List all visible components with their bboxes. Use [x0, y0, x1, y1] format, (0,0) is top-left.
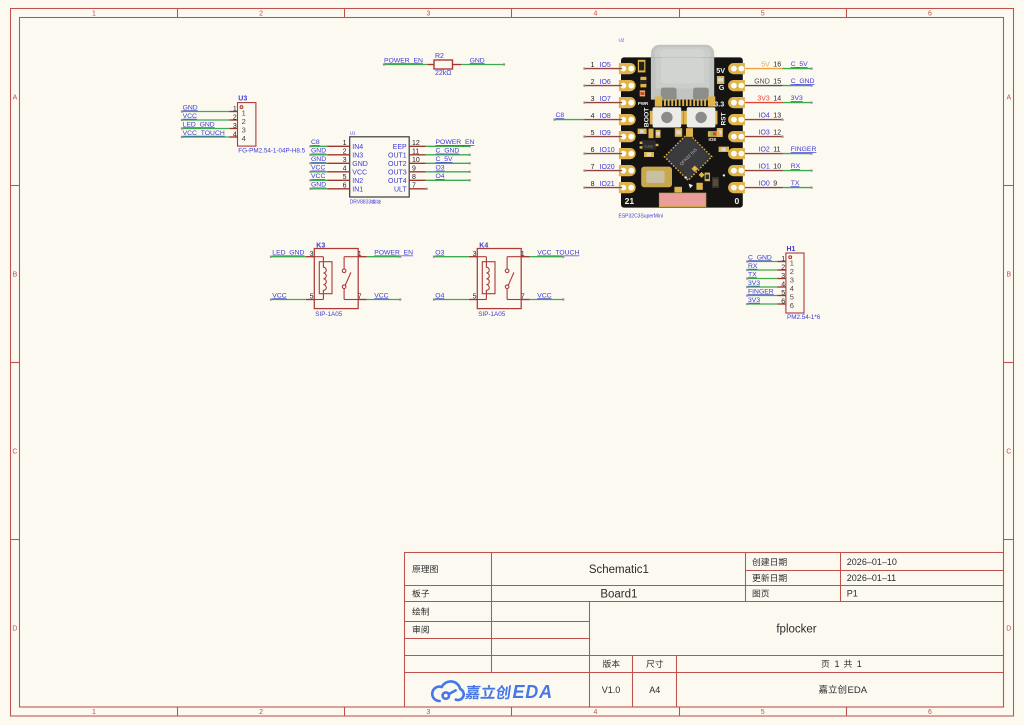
wire VCC [367, 298, 402, 300]
svg-text:OUT1: OUT1 [388, 152, 407, 159]
svg-text:C8: C8 [311, 139, 320, 146]
pin 10 of U2 (IO1) [745, 163, 783, 170]
svg-text:G: G [719, 83, 725, 92]
svg-text:RST: RST [721, 113, 728, 126]
wire RX [783, 170, 813, 172]
svg-text:FINGER: FINGER [791, 146, 817, 153]
left pads of U2 [619, 63, 636, 193]
svg-text:U1: U1 [350, 131, 356, 136]
svg-text:GND: GND [311, 148, 326, 155]
pin 4 of U1 (VCC) [328, 166, 368, 177]
wire GND [461, 63, 505, 65]
svg-text:4: 4 [242, 134, 246, 143]
wire O3 [433, 256, 469, 258]
svg-text:2026–01–10: 2026–01–10 [847, 557, 897, 567]
wire C_5V [426, 162, 471, 164]
svg-text:IO8: IO8 [600, 113, 611, 120]
pin 12 of U2 (IO3) [745, 129, 783, 136]
svg-text:PM2.54-1*6: PM2.54-1*6 [787, 314, 821, 321]
svg-text:Board1: Board1 [600, 588, 637, 600]
pin 3 of U1 (GND) [328, 157, 368, 168]
wire C_GND [783, 85, 813, 87]
wire VCC [309, 171, 327, 173]
svg-text:U2: U2 [619, 38, 625, 43]
pin 6 of U1 (IN1) [328, 183, 364, 194]
svg-text:2026–01–11: 2026–01–11 [847, 573, 896, 583]
svg-text:1: 1 [521, 251, 525, 258]
pin 2 of U1 (IN3) [328, 149, 364, 160]
pin 6 of H1 [777, 299, 794, 310]
svg-text:IO4: IO4 [759, 112, 770, 119]
svg-text:12: 12 [412, 140, 420, 147]
wire VCC [270, 298, 306, 300]
svg-text:2: 2 [259, 709, 263, 716]
svg-text:K3: K3 [316, 242, 325, 249]
wire GND [309, 162, 327, 164]
svg-text:K4: K4 [479, 242, 488, 249]
svg-text:10: 10 [773, 163, 781, 170]
pin 3 of K3 [306, 251, 315, 258]
pin 5 of K4 [469, 294, 478, 301]
wire TX [746, 277, 777, 279]
pin 4 of U2 (IO8) [585, 113, 623, 120]
svg-text:1: 1 [591, 62, 595, 69]
svg-text:IO20: IO20 [600, 164, 615, 171]
svg-text:0: 0 [735, 196, 740, 206]
svg-text:IO21: IO21 [600, 181, 615, 188]
wire TX [783, 187, 813, 189]
pin 7 of K3 [358, 294, 367, 301]
pin 16 of U2 (5V) [745, 61, 783, 68]
svg-text:VCC_TOUCH: VCC_TOUCH [537, 250, 579, 257]
pin 1 of H1 [777, 256, 794, 267]
svg-text:IN3: IN3 [352, 152, 363, 159]
pin 11 of U2 (IO2) [745, 146, 783, 153]
svg-text:GND: GND [754, 78, 770, 85]
pin 5 of H1 [777, 290, 794, 301]
svg-text:C_GND: C_GND [436, 148, 460, 155]
svg-text:Y1928: Y1928 [644, 144, 653, 148]
svg-text:Schematic1: Schematic1 [589, 564, 649, 576]
pin 12 of U1 (EEP) [393, 140, 426, 151]
svg-text:9: 9 [412, 166, 416, 173]
svg-text:GND: GND [352, 161, 368, 168]
svg-text:8: 8 [591, 181, 595, 188]
svg-text:VCC: VCC [352, 169, 367, 176]
svg-text:5: 5 [591, 130, 595, 137]
svg-text:3: 3 [426, 10, 430, 17]
svg-text:DRV8833: DRV8833 [350, 200, 372, 206]
svg-text:3: 3 [310, 251, 314, 258]
svg-text:5: 5 [761, 10, 765, 17]
pin 1 of K3 [358, 251, 367, 258]
svg-text:4: 4 [233, 132, 237, 139]
svg-text:11: 11 [412, 149, 419, 156]
svg-text:6: 6 [591, 147, 595, 154]
svg-text:GND: GND [470, 57, 485, 64]
svg-text:1: 1 [92, 709, 96, 716]
svg-text:C_5V: C_5V [791, 61, 808, 68]
svg-text:6: 6 [790, 301, 794, 310]
svg-text:IO6: IO6 [600, 79, 611, 86]
svg-text:5: 5 [310, 294, 314, 301]
svg-text:1: 1 [92, 10, 96, 17]
wire VCC_TOUCH [530, 256, 565, 258]
svg-text:TX: TX [791, 180, 800, 187]
svg-text:IO5: IO5 [600, 62, 611, 69]
relay K3 [314, 242, 358, 308]
svg-text:3: 3 [426, 709, 430, 716]
wire C_GND [746, 260, 777, 262]
wire FINGER [783, 153, 813, 155]
pin 1 of U1 (IN4) [328, 140, 364, 151]
svg-text:POWER_EN: POWER_EN [384, 57, 423, 64]
svg-text:O3: O3 [436, 165, 445, 172]
pin 11 of U1 (OUT1) [388, 149, 425, 160]
svg-text:EDA: EDA [848, 685, 868, 696]
svg-text:2: 2 [343, 149, 347, 156]
pin 8 of U2 (IO21) [585, 181, 623, 188]
pin 14 of U2 (3V3) [745, 95, 783, 102]
pin 5 of U1 (IN2) [328, 174, 364, 185]
svg-text:1: 1 [781, 256, 785, 263]
svg-text:BOOT: BOOT [644, 107, 651, 127]
pin 9 of U1 (OUT3) [388, 166, 425, 177]
svg-text:5: 5 [761, 709, 765, 716]
svg-text:D: D [12, 625, 17, 632]
wire VCC [309, 179, 327, 181]
wire C8 [553, 119, 584, 121]
svg-text:VCC: VCC [537, 292, 551, 299]
value label DRV8833模块 [350, 200, 381, 206]
svg-text:VCC: VCC [272, 292, 286, 299]
svg-text:7: 7 [358, 294, 362, 301]
svg-text:3V3: 3V3 [757, 95, 770, 102]
svg-text:IN2: IN2 [352, 178, 363, 185]
svg-text:2: 2 [233, 115, 237, 122]
svg-text:3.3: 3.3 [714, 100, 724, 109]
svg-text:IN4: IN4 [352, 144, 363, 151]
svg-text:VCC: VCC [374, 292, 388, 299]
pin 3 of H1 [777, 273, 794, 284]
wire GND [309, 154, 327, 156]
svg-text:3: 3 [473, 251, 477, 258]
svg-text:9: 9 [773, 180, 777, 187]
svg-text:EEP: EEP [393, 144, 407, 151]
svg-text:FG-PM2.54-1-04P-H8.5: FG-PM2.54-1-04P-H8.5 [238, 148, 305, 155]
svg-text:3V3: 3V3 [748, 297, 760, 304]
svg-text:8: 8 [412, 174, 416, 181]
pin 3 of U3 [230, 123, 246, 134]
wire VCC_TOUCH [181, 136, 230, 138]
svg-text:5: 5 [781, 290, 785, 297]
wire 3V3 [746, 303, 777, 305]
wire C_GND [426, 154, 471, 156]
svg-text:ESP32C3SuperMini: ESP32C3SuperMini [619, 213, 663, 219]
op-amp/module U1 DRV8833 [350, 131, 410, 197]
pin 3 of U2 (IO7) [585, 96, 623, 103]
svg-text:6: 6 [928, 709, 932, 716]
pin 4 of H1 [777, 282, 794, 293]
pin 5 of U2 (IO9) [585, 130, 623, 137]
svg-text:OUT4: OUT4 [388, 178, 407, 185]
svg-text:5: 5 [343, 174, 347, 181]
svg-text:14: 14 [773, 95, 781, 102]
pin 6 of U2 (IO10) [585, 147, 623, 154]
svg-text:IO10: IO10 [600, 147, 615, 154]
svg-text:RX: RX [791, 163, 801, 170]
svg-text:1: 1 [358, 251, 362, 258]
svg-text:LED_GND: LED_GND [183, 121, 215, 128]
wire VCC [530, 298, 565, 300]
connector U3 [238, 96, 256, 147]
pin 1 of U2 (IO5) [585, 62, 623, 69]
wire GND [309, 188, 327, 190]
connector H1 [786, 246, 804, 313]
wire VCC [181, 119, 230, 121]
svg-text:B: B [13, 271, 18, 278]
svg-text:R2: R2 [435, 53, 444, 60]
U2 silkscreen labels [625, 66, 740, 206]
svg-text:A: A [13, 95, 18, 102]
svg-text:2: 2 [781, 265, 785, 272]
wire C_5V [783, 68, 813, 70]
pin 5 of K3 [306, 294, 315, 301]
pin 3 of K4 [469, 251, 478, 258]
module U2 ESP32C3SuperMini board [619, 38, 743, 208]
svg-text:VCC_TOUCH: VCC_TOUCH [183, 130, 225, 137]
wire O4 [433, 298, 469, 300]
svg-text:EDA: EDA [513, 682, 553, 702]
svg-text:A4: A4 [649, 685, 660, 695]
svg-text:GND: GND [311, 182, 326, 189]
svg-text:B: B [1006, 271, 1011, 278]
svg-text:P1: P1 [847, 589, 858, 599]
svg-text:O3: O3 [435, 250, 444, 257]
pin 7 of K4 [521, 294, 530, 301]
relay K4 [477, 242, 521, 308]
wire POWER_EN [367, 256, 402, 258]
svg-text:3: 3 [591, 96, 595, 103]
svg-text:C_GND: C_GND [748, 254, 772, 261]
svg-text:4: 4 [781, 282, 785, 289]
pin 1 of U3 [230, 106, 246, 117]
svg-text:GND: GND [311, 156, 326, 163]
svg-text:TX: TX [748, 271, 757, 278]
svg-text:OUT2: OUT2 [388, 161, 407, 168]
svg-text:10: 10 [412, 157, 420, 164]
svg-text:IO8: IO8 [709, 137, 717, 142]
svg-text:IO9: IO9 [600, 130, 611, 137]
svg-text:IO1: IO1 [759, 163, 770, 170]
svg-text:GND: GND [183, 104, 198, 111]
right pads of U2 [728, 63, 745, 193]
svg-text:FINGER: FINGER [748, 288, 774, 295]
svg-text:V1.0: V1.0 [602, 685, 621, 695]
svg-text:VCC: VCC [311, 173, 325, 180]
svg-text:5V: 5V [761, 61, 770, 68]
svg-text:LED_GND: LED_GND [272, 250, 304, 257]
svg-text:1: 1 [343, 140, 347, 147]
svg-text:C: C [12, 448, 17, 455]
svg-text:IO3: IO3 [759, 129, 770, 136]
pin 1 of K4 [521, 251, 530, 258]
svg-text:C_5V: C_5V [436, 156, 453, 163]
svg-text:PWR: PWR [638, 101, 649, 106]
svg-text:21: 21 [625, 196, 635, 206]
svg-text:fplocker: fplocker [776, 623, 816, 635]
svg-text:7: 7 [591, 164, 595, 171]
svg-text:IO7: IO7 [600, 96, 611, 103]
pin 8 of U1 (OUT4) [388, 174, 425, 185]
svg-text:A: A [1006, 95, 1011, 102]
svg-text:7: 7 [412, 183, 416, 190]
svg-text:11: 11 [773, 146, 780, 153]
wire POWER_EN [426, 145, 471, 147]
svg-text:U3: U3 [238, 96, 247, 103]
svg-text:POWER_EN: POWER_EN [436, 139, 475, 146]
pin 2 of U3 [230, 115, 246, 126]
svg-text:IO2: IO2 [759, 146, 770, 153]
svg-text:C8: C8 [556, 112, 565, 119]
svg-text:RX: RX [748, 263, 758, 270]
svg-text:D: D [1006, 625, 1011, 632]
wire POWER_EN [383, 63, 427, 65]
svg-text:3V3: 3V3 [791, 95, 803, 102]
logo text 嘉立创EDA [465, 685, 481, 699]
svg-text:VCC: VCC [183, 113, 197, 120]
svg-text:VCC: VCC [311, 165, 325, 172]
svg-text:SIP-1A05: SIP-1A05 [315, 311, 342, 318]
svg-text:16: 16 [773, 61, 781, 68]
pin 9 of U2 (IO0) [745, 180, 783, 187]
wire O4 [426, 179, 471, 181]
U2 board components [638, 60, 729, 207]
svg-text:H1: H1 [787, 246, 796, 253]
svg-text:1: 1 [857, 659, 862, 669]
svg-text:15: 15 [773, 78, 781, 85]
svg-text:3: 3 [233, 123, 237, 130]
svg-text:O4: O4 [436, 173, 445, 180]
svg-text:IO0: IO0 [759, 180, 770, 187]
svg-text:2: 2 [591, 79, 595, 86]
svg-text:4: 4 [594, 709, 598, 716]
svg-text:4: 4 [343, 166, 347, 173]
wire RX [746, 269, 777, 271]
svg-text:6: 6 [781, 299, 785, 306]
svg-text:2: 2 [259, 10, 263, 17]
svg-text:OUT3: OUT3 [388, 169, 407, 176]
wire LED_GND [181, 127, 230, 129]
svg-text:1: 1 [233, 106, 237, 113]
wire 3V3 [783, 102, 813, 104]
wire O3 [426, 171, 471, 173]
svg-text:4: 4 [591, 113, 595, 120]
svg-text:IN1: IN1 [352, 186, 363, 193]
svg-text:6: 6 [343, 183, 347, 190]
svg-text:3: 3 [781, 273, 785, 280]
pin 2 of U2 (IO6) [585, 79, 623, 86]
pin 10 of U1 (OUT2) [388, 157, 425, 168]
logo cloud [432, 681, 463, 701]
svg-text:22kΩ: 22kΩ [435, 70, 452, 77]
svg-text:4: 4 [594, 10, 598, 17]
pin 7 of U2 (IO20) [585, 164, 623, 171]
pin 15 of U2 (GND) [745, 78, 783, 85]
svg-text:POWER_EN: POWER_EN [374, 250, 413, 257]
wire FINGER [746, 294, 777, 296]
pin 13 of U2 (IO4) [745, 112, 783, 119]
svg-text:3V3: 3V3 [748, 280, 760, 287]
svg-text:5V: 5V [716, 66, 725, 75]
pin 7 of U1 (ULT) [394, 183, 427, 194]
pin 2 of H1 [777, 265, 794, 276]
wire LED_GND [270, 256, 306, 258]
wire 3V3 [746, 286, 777, 288]
svg-text:13: 13 [773, 112, 781, 119]
pin 4 of U3 [230, 132, 246, 143]
svg-text:6: 6 [928, 10, 932, 17]
svg-text:ULT: ULT [394, 186, 407, 193]
svg-text:O4: O4 [435, 292, 444, 299]
resistor R2 [427, 53, 461, 69]
svg-text:7: 7 [521, 294, 525, 301]
svg-text:5: 5 [473, 294, 477, 301]
svg-text:C: C [1006, 448, 1011, 455]
svg-text:1: 1 [835, 659, 840, 669]
svg-text:12: 12 [773, 129, 781, 136]
wire C8 [309, 145, 327, 147]
svg-text:3: 3 [343, 157, 347, 164]
wire GND [181, 110, 230, 112]
svg-text:C_GND: C_GND [791, 78, 815, 85]
svg-text:SIP-1A05: SIP-1A05 [478, 311, 505, 318]
